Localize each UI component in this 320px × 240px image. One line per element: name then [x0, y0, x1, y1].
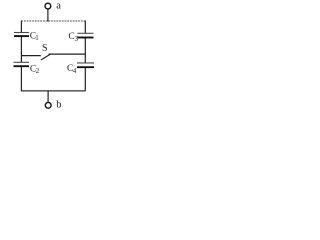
svg-text:4: 4: [73, 67, 77, 75]
svg-text:3: 3: [75, 35, 79, 43]
svg-text:a: a: [56, 1, 61, 12]
svg-text:S: S: [42, 43, 48, 54]
svg-text:b: b: [56, 100, 61, 111]
svg-text:1: 1: [35, 34, 39, 42]
svg-text:2: 2: [36, 67, 40, 75]
